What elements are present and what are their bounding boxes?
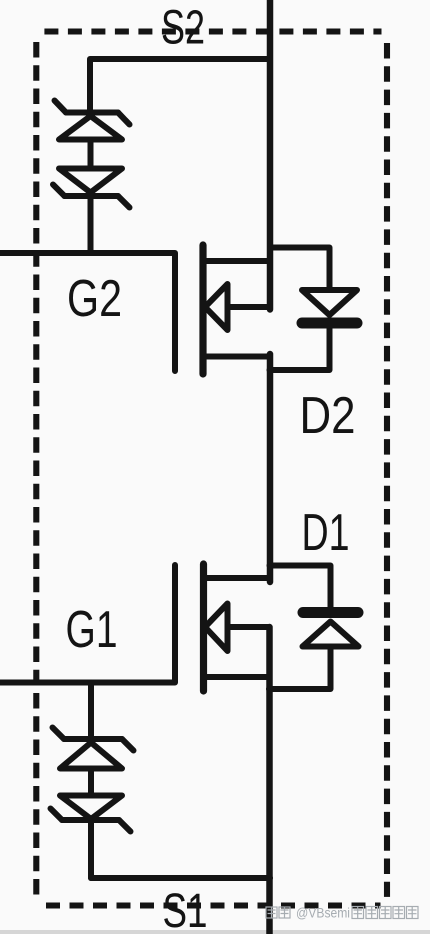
svg-text:@VBsemi: @VBsemi <box>296 906 350 921</box>
svg-text:S1: S1 <box>163 885 208 934</box>
svg-text:G2: G2 <box>67 270 122 328</box>
svg-text:D2: D2 <box>300 387 356 445</box>
svg-text:S2: S2 <box>161 2 205 55</box>
svg-text:G1: G1 <box>66 601 118 659</box>
svg-text:D1: D1 <box>302 504 350 562</box>
